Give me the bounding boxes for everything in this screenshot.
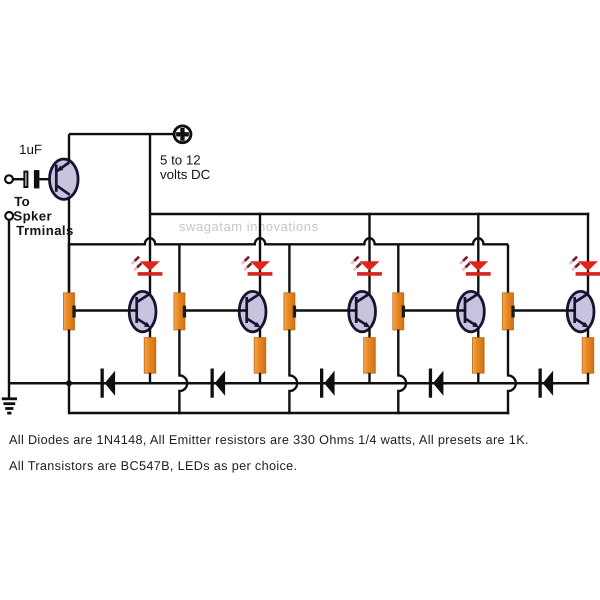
wire: capacitor to Q6 base — [39, 178, 51, 180]
wire: LED3 anode drop — [368, 213, 370, 296]
label: 5 to 12 volts DC — [160, 152, 211, 181]
wire: R5 to diode line — [587, 373, 589, 385]
resistor R1 330 ohm emitter — [144, 338, 156, 374]
svg-text:Trminals: Trminals — [16, 223, 73, 238]
wire: P2 bottom to return bus (hops over diode line) — [179, 330, 187, 415]
wire: R2 to diode line — [259, 373, 261, 385]
wire: Q6 collector to audio rail / preset P1 — [68, 197, 70, 294]
svg-text:1uF: 1uF — [19, 142, 42, 157]
node: diode chain line — [9, 382, 588, 385]
wire: P5 wiper to Q5 base — [514, 309, 575, 311]
resistor R4 330 ohm emitter — [473, 338, 485, 374]
wire: R3 to diode line — [368, 373, 370, 385]
wire: Q2 emitter lead — [259, 328, 261, 340]
junction: P1 / ground line / return bus — [66, 380, 72, 386]
LED3 (red LED) — [351, 257, 382, 276]
diode D1 1N4148 — [101, 369, 116, 398]
wire: Q4 emitter lead — [477, 328, 479, 340]
input terminal (audio in) — [5, 175, 13, 183]
transistor Q5 BC547B — [567, 291, 594, 331]
wire: P1 wiper to Q1 base — [75, 309, 137, 311]
wire: LED2 anode drop — [259, 213, 261, 296]
LED1 (red LED) — [132, 257, 163, 276]
LED4 (red LED) — [460, 257, 491, 276]
transistor Q3 BC547B — [349, 291, 376, 331]
svg-text:volts DC: volts DC — [160, 167, 211, 182]
node: preset return bus — [69, 412, 509, 415]
transistor Q4 BC547B — [458, 291, 485, 331]
capacitor C1 1uF — [24, 170, 39, 188]
wire: P3 wiper to Q3 base — [296, 309, 357, 311]
diode D5 1N4148 — [539, 369, 554, 398]
preset P4 1K — [393, 244, 405, 330]
node: audio bias rail (hops over LED wires) — [68, 238, 508, 244]
wire: +V supply line — [69, 133, 173, 135]
terminal: speaker return — [5, 212, 13, 220]
svg-text:All Transistors are BC547B, LE: All Transistors are BC547B, LEDs as per … — [9, 459, 297, 473]
wire: LED4 anode drop — [477, 213, 479, 296]
resistor R5 330 ohm emitter — [582, 338, 594, 374]
preset P1 1K — [64, 244, 76, 330]
transistor Q2 BC547B — [239, 291, 266, 331]
wire: LED5 anode drop — [587, 213, 589, 296]
preset P3 1K — [284, 244, 296, 330]
wire: P3 bottom to return bus (hops over diode line) — [289, 330, 297, 415]
svg-text:Spker: Spker — [13, 208, 52, 223]
diode D2 1N4148 — [211, 369, 226, 398]
svg-text:5 to 12: 5 to 12 — [160, 152, 201, 167]
svg-text:All Diodes are 1N4148, All Emi: All Diodes are 1N4148, All Emitter resis… — [9, 433, 529, 447]
wire: terminal to capacitor — [13, 178, 24, 180]
wire: Q5 emitter lead — [587, 328, 589, 340]
wire: P4 wiper to Q4 base — [405, 309, 466, 311]
LED2 (red LED) — [242, 257, 273, 276]
node: LED anode rail — [150, 213, 589, 215]
ground — [2, 383, 17, 413]
transistor Q1 BC547B — [129, 291, 156, 331]
diode D4 1N4148 — [429, 369, 444, 398]
wire: R1 to diode line — [149, 373, 151, 385]
preset P5 1K — [503, 244, 515, 330]
label: To Spker Trminals — [13, 194, 73, 238]
wire: R4 to diode line — [477, 373, 479, 385]
wire: speaker return to ground — [8, 220, 10, 385]
svg-text:To: To — [14, 194, 30, 209]
preset P2 1K — [174, 244, 186, 330]
resistor R2 330 ohm emitter — [254, 338, 266, 374]
wire: P4 bottom to return bus (hops over diode line) — [398, 330, 406, 415]
wire: P1 bottom to ground line and return bus — [68, 330, 70, 415]
wire: P2 wiper to Q2 base — [186, 309, 248, 311]
svg-text:swagatam innovations: swagatam innovations — [179, 219, 319, 234]
LED5 (red LED) — [570, 257, 600, 276]
wire: Q6 emitter to +V — [68, 134, 70, 162]
wire: Q3 emitter lead — [368, 328, 370, 340]
transistor Q6 (PNP input driver) — [50, 159, 79, 199]
wire: Q1 emitter lead — [149, 328, 151, 340]
diode D3 1N4148 — [320, 369, 335, 398]
resistor R3 330 ohm emitter — [364, 338, 376, 374]
power terminal +V (circle with plus) — [174, 126, 191, 143]
wire: P5 bottom to return bus (hops over diode line) — [508, 330, 516, 415]
wire: supply drop / LED1 anode — [149, 134, 151, 296]
